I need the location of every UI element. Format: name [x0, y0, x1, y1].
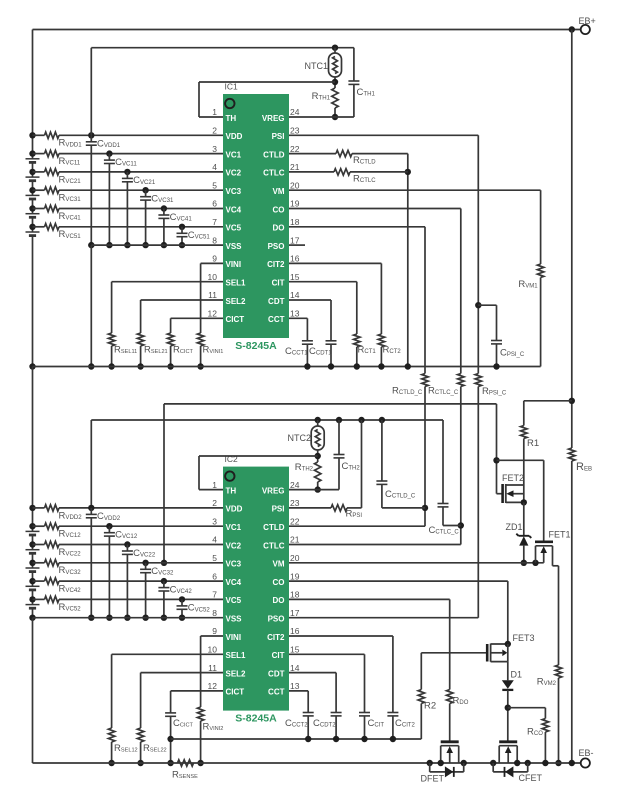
svg-text:SEL2: SEL2 — [226, 297, 247, 306]
svg-text:18: 18 — [290, 590, 300, 600]
svg-text:VC5: VC5 — [226, 596, 242, 605]
svg-text:CTLD: CTLD — [263, 150, 285, 159]
svg-text:CIT: CIT — [272, 651, 285, 660]
svg-text:CTLC: CTLC — [263, 169, 285, 178]
svg-text:12: 12 — [208, 309, 218, 319]
svg-text:VINI: VINI — [226, 633, 242, 642]
svg-text:PSI: PSI — [272, 505, 285, 514]
svg-text:CICT: CICT — [226, 315, 245, 324]
svg-text:S-8245A: S-8245A — [235, 713, 277, 725]
svg-text:CO: CO — [273, 578, 285, 587]
svg-text:CCT: CCT — [268, 315, 285, 324]
svg-text:22: 22 — [290, 144, 300, 154]
svg-text:DO: DO — [273, 224, 285, 233]
svg-text:IC1: IC1 — [225, 82, 239, 92]
svg-text:CIT: CIT — [272, 279, 285, 288]
svg-text:VC1: VC1 — [226, 523, 242, 532]
svg-text:NTC2: NTC2 — [287, 433, 311, 443]
svg-text:NTC1: NTC1 — [304, 61, 328, 71]
svg-text:SEL1: SEL1 — [226, 651, 247, 660]
svg-text:VSS: VSS — [226, 615, 243, 624]
svg-text:VC5: VC5 — [226, 224, 242, 233]
svg-text:DO: DO — [273, 596, 285, 605]
svg-text:FET2: FET2 — [502, 473, 524, 483]
svg-text:R1: R1 — [527, 438, 539, 449]
svg-text:TH: TH — [226, 114, 237, 123]
svg-text:PSO: PSO — [268, 242, 285, 251]
svg-text:8: 8 — [212, 235, 217, 245]
svg-text:CTLD: CTLD — [263, 523, 285, 532]
svg-text:13: 13 — [290, 309, 300, 319]
svg-text:23: 23 — [290, 126, 300, 136]
svg-text:CIT2: CIT2 — [267, 260, 285, 269]
svg-text:22: 22 — [290, 516, 300, 526]
svg-text:17: 17 — [290, 608, 300, 618]
svg-text:3: 3 — [212, 144, 217, 154]
svg-text:9: 9 — [212, 626, 217, 636]
svg-text:10: 10 — [208, 272, 218, 282]
svg-text:3: 3 — [212, 516, 217, 526]
svg-text:12: 12 — [208, 681, 218, 691]
svg-text:ZD1: ZD1 — [506, 522, 523, 532]
svg-text:VDD: VDD — [226, 132, 243, 141]
svg-text:9: 9 — [212, 254, 217, 264]
svg-text:17: 17 — [290, 235, 300, 245]
svg-text:8: 8 — [212, 608, 217, 618]
svg-text:20: 20 — [290, 553, 300, 563]
svg-text:18: 18 — [290, 217, 300, 227]
svg-text:6: 6 — [212, 571, 217, 581]
svg-text:VSS: VSS — [226, 242, 243, 251]
svg-text:FET1: FET1 — [549, 530, 571, 540]
svg-text:21: 21 — [290, 535, 300, 545]
svg-text:VC1: VC1 — [226, 150, 242, 159]
svg-text:CDT: CDT — [268, 669, 285, 678]
svg-text:15: 15 — [290, 272, 300, 282]
svg-text:CIT2: CIT2 — [267, 633, 285, 642]
svg-text:23: 23 — [290, 498, 300, 508]
svg-text:VC3: VC3 — [226, 187, 242, 196]
svg-text:CDT: CDT — [268, 297, 285, 306]
svg-text:CCT: CCT — [268, 688, 285, 697]
svg-text:VM: VM — [273, 187, 285, 196]
svg-text:CFET: CFET — [519, 773, 543, 783]
svg-text:VINI: VINI — [226, 260, 242, 269]
svg-text:1: 1 — [212, 480, 217, 490]
svg-text:16: 16 — [290, 254, 300, 264]
svg-text:19: 19 — [290, 199, 300, 209]
svg-text:EB-: EB- — [579, 748, 594, 758]
svg-text:VC4: VC4 — [226, 578, 242, 587]
svg-text:14: 14 — [290, 290, 300, 300]
svg-text:S-8245A: S-8245A — [235, 340, 277, 352]
svg-text:D1: D1 — [511, 670, 523, 680]
svg-text:CICT: CICT — [226, 688, 245, 697]
svg-text:VREG: VREG — [262, 114, 285, 123]
svg-text:SEL1: SEL1 — [226, 279, 247, 288]
svg-text:7: 7 — [212, 217, 217, 227]
svg-text:PSO: PSO — [268, 615, 285, 624]
svg-text:19: 19 — [290, 571, 300, 581]
svg-text:DFET: DFET — [421, 774, 445, 784]
svg-text:PSI: PSI — [272, 132, 285, 141]
svg-text:CO: CO — [273, 205, 285, 214]
svg-text:5: 5 — [212, 180, 217, 190]
svg-text:R2: R2 — [424, 701, 436, 712]
svg-text:11: 11 — [208, 290, 217, 300]
svg-text:FET3: FET3 — [513, 633, 535, 643]
svg-text:5: 5 — [212, 553, 217, 563]
svg-text:TH: TH — [226, 486, 237, 495]
svg-text:VDD: VDD — [226, 505, 243, 514]
svg-text:6: 6 — [212, 199, 217, 209]
svg-text:13: 13 — [290, 681, 300, 691]
svg-text:15: 15 — [290, 645, 300, 655]
svg-text:SEL2: SEL2 — [226, 669, 247, 678]
svg-text:21: 21 — [290, 162, 300, 172]
svg-text:4: 4 — [212, 535, 217, 545]
svg-text:1: 1 — [212, 107, 217, 117]
svg-text:10: 10 — [208, 645, 218, 655]
svg-text:2: 2 — [212, 498, 217, 508]
svg-text:11: 11 — [208, 663, 217, 673]
svg-text:4: 4 — [212, 162, 217, 172]
svg-text:VREG: VREG — [262, 486, 285, 495]
svg-text:VM: VM — [273, 560, 285, 569]
svg-text:VC4: VC4 — [226, 205, 242, 214]
svg-text:20: 20 — [290, 180, 300, 190]
svg-text:CTLC: CTLC — [263, 541, 285, 550]
svg-text:24: 24 — [290, 480, 300, 490]
svg-text:24: 24 — [290, 107, 300, 117]
svg-text:16: 16 — [290, 626, 300, 636]
svg-text:14: 14 — [290, 663, 300, 673]
svg-text:VC2: VC2 — [226, 541, 242, 550]
svg-text:VC3: VC3 — [226, 560, 242, 569]
svg-text:EB+: EB+ — [579, 16, 596, 26]
svg-text:7: 7 — [212, 590, 217, 600]
svg-text:VC2: VC2 — [226, 169, 242, 178]
svg-text:2: 2 — [212, 126, 217, 136]
